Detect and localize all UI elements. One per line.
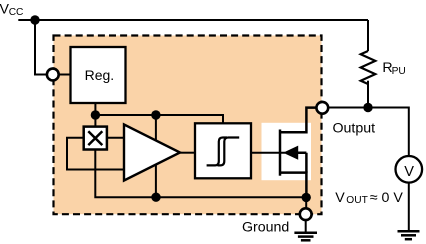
node rail-reg junction xyxy=(91,110,100,119)
node ground rail output junction xyxy=(302,193,311,202)
svg-text:Output: Output xyxy=(333,121,376,137)
wire internal top rail to schmitt xyxy=(95,115,223,124)
transistor Q1 gate bar xyxy=(279,130,282,176)
wire ground pin to ground symbol xyxy=(305,220,307,233)
svg-text:≈ 0 V: ≈ 0 V xyxy=(370,190,404,206)
wire Reg bottom to internal rail xyxy=(94,103,96,127)
op-amp A1 xyxy=(124,125,180,181)
wire VCC to regulator pin xyxy=(35,20,46,75)
voltmeter V1 xyxy=(396,156,423,183)
wire pullup node to voltmeter xyxy=(368,108,409,156)
ground symbol under ground pin xyxy=(294,233,317,241)
wire rail to ground pin xyxy=(305,197,307,208)
node rail-feedback junction xyxy=(151,110,160,119)
device boundary dashed box xyxy=(54,36,322,215)
wire schmitt to gate xyxy=(251,152,285,154)
pin circle Output xyxy=(316,102,328,114)
transistor Q1 source xyxy=(280,173,306,198)
node VCC junction xyxy=(30,15,39,24)
wire multiplier to amp input xyxy=(107,137,124,139)
wire bottom ground rail xyxy=(95,150,306,198)
wire voltmeter to ground xyxy=(408,183,410,232)
schmitt trigger U1 xyxy=(195,123,251,178)
label VCC xyxy=(0,2,23,19)
wire vertical feedback through amplifier xyxy=(155,115,157,197)
svg-text:V: V xyxy=(404,164,414,180)
wire pin to Reg xyxy=(59,74,71,76)
transistor Q1 body arrow xyxy=(284,146,306,172)
label VOUT approx 0 V xyxy=(335,190,403,206)
wire multiplier left loop to amp inverting input xyxy=(67,138,124,170)
wire VCC rail xyxy=(18,19,368,21)
svg-text:Reg.: Reg. xyxy=(85,67,115,83)
node ground rail amp junction xyxy=(151,193,160,202)
label RPU xyxy=(382,60,405,77)
pin circle Ground xyxy=(300,208,312,220)
ground symbol under voltmeter xyxy=(398,231,420,239)
wire amp output to schmitt xyxy=(180,152,195,154)
transistor Q1 drain xyxy=(280,108,316,133)
multiplier X1 xyxy=(84,127,107,150)
pin circle VCC xyxy=(47,69,59,81)
wire output to pullup node xyxy=(328,107,368,109)
regulator block Reg xyxy=(71,47,126,103)
svg-text:OUT: OUT xyxy=(346,195,368,206)
mosfet highlight box xyxy=(262,123,312,180)
svg-text:PU: PU xyxy=(392,66,406,77)
svg-text:V: V xyxy=(335,190,345,206)
resistor RPU xyxy=(361,20,376,108)
svg-text:Ground: Ground xyxy=(242,220,289,236)
svg-text:CC: CC xyxy=(9,7,24,18)
node pullup junction xyxy=(363,103,372,112)
